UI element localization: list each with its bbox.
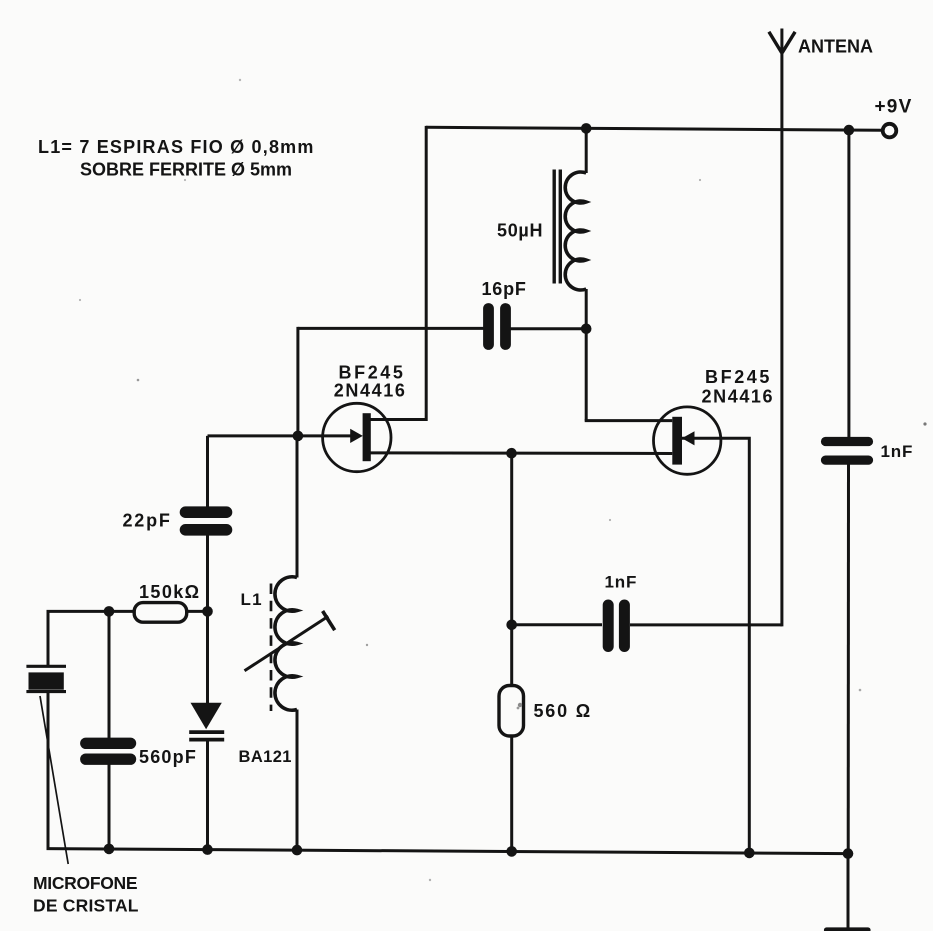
svg-text:560 Ω: 560 Ω xyxy=(534,701,592,721)
svg-text:560pF: 560pF xyxy=(139,747,197,767)
svg-text:150kΩ: 150kΩ xyxy=(139,582,200,602)
svg-text:L1: L1 xyxy=(241,590,263,609)
svg-text:2N4416: 2N4416 xyxy=(334,380,407,400)
svg-text:1nF: 1nF xyxy=(605,573,638,592)
svg-text:1nF: 1nF xyxy=(881,442,914,461)
svg-text:+9V: +9V xyxy=(875,97,913,118)
svg-text:BF245: BF245 xyxy=(339,362,406,382)
svg-text:MICROFONE: MICROFONE xyxy=(33,873,137,893)
svg-text:L1= 7 ESPIRAS FIO Ø 0,8mm: L1= 7 ESPIRAS FIO Ø 0,8mm xyxy=(38,137,315,157)
svg-text:BF245: BF245 xyxy=(705,367,772,387)
svg-text:50µH: 50µH xyxy=(497,220,543,240)
svg-text:BA121: BA121 xyxy=(239,748,292,766)
svg-text:16pF: 16pF xyxy=(482,279,527,299)
svg-text:2N4416: 2N4416 xyxy=(702,386,775,406)
svg-text:DE CRISTAL: DE CRISTAL xyxy=(33,895,139,915)
svg-text:SOBRE FERRITE Ø 5mm: SOBRE FERRITE Ø 5mm xyxy=(80,160,292,180)
svg-text:ANTENA: ANTENA xyxy=(798,36,873,56)
svg-text:22pF: 22pF xyxy=(123,511,172,531)
